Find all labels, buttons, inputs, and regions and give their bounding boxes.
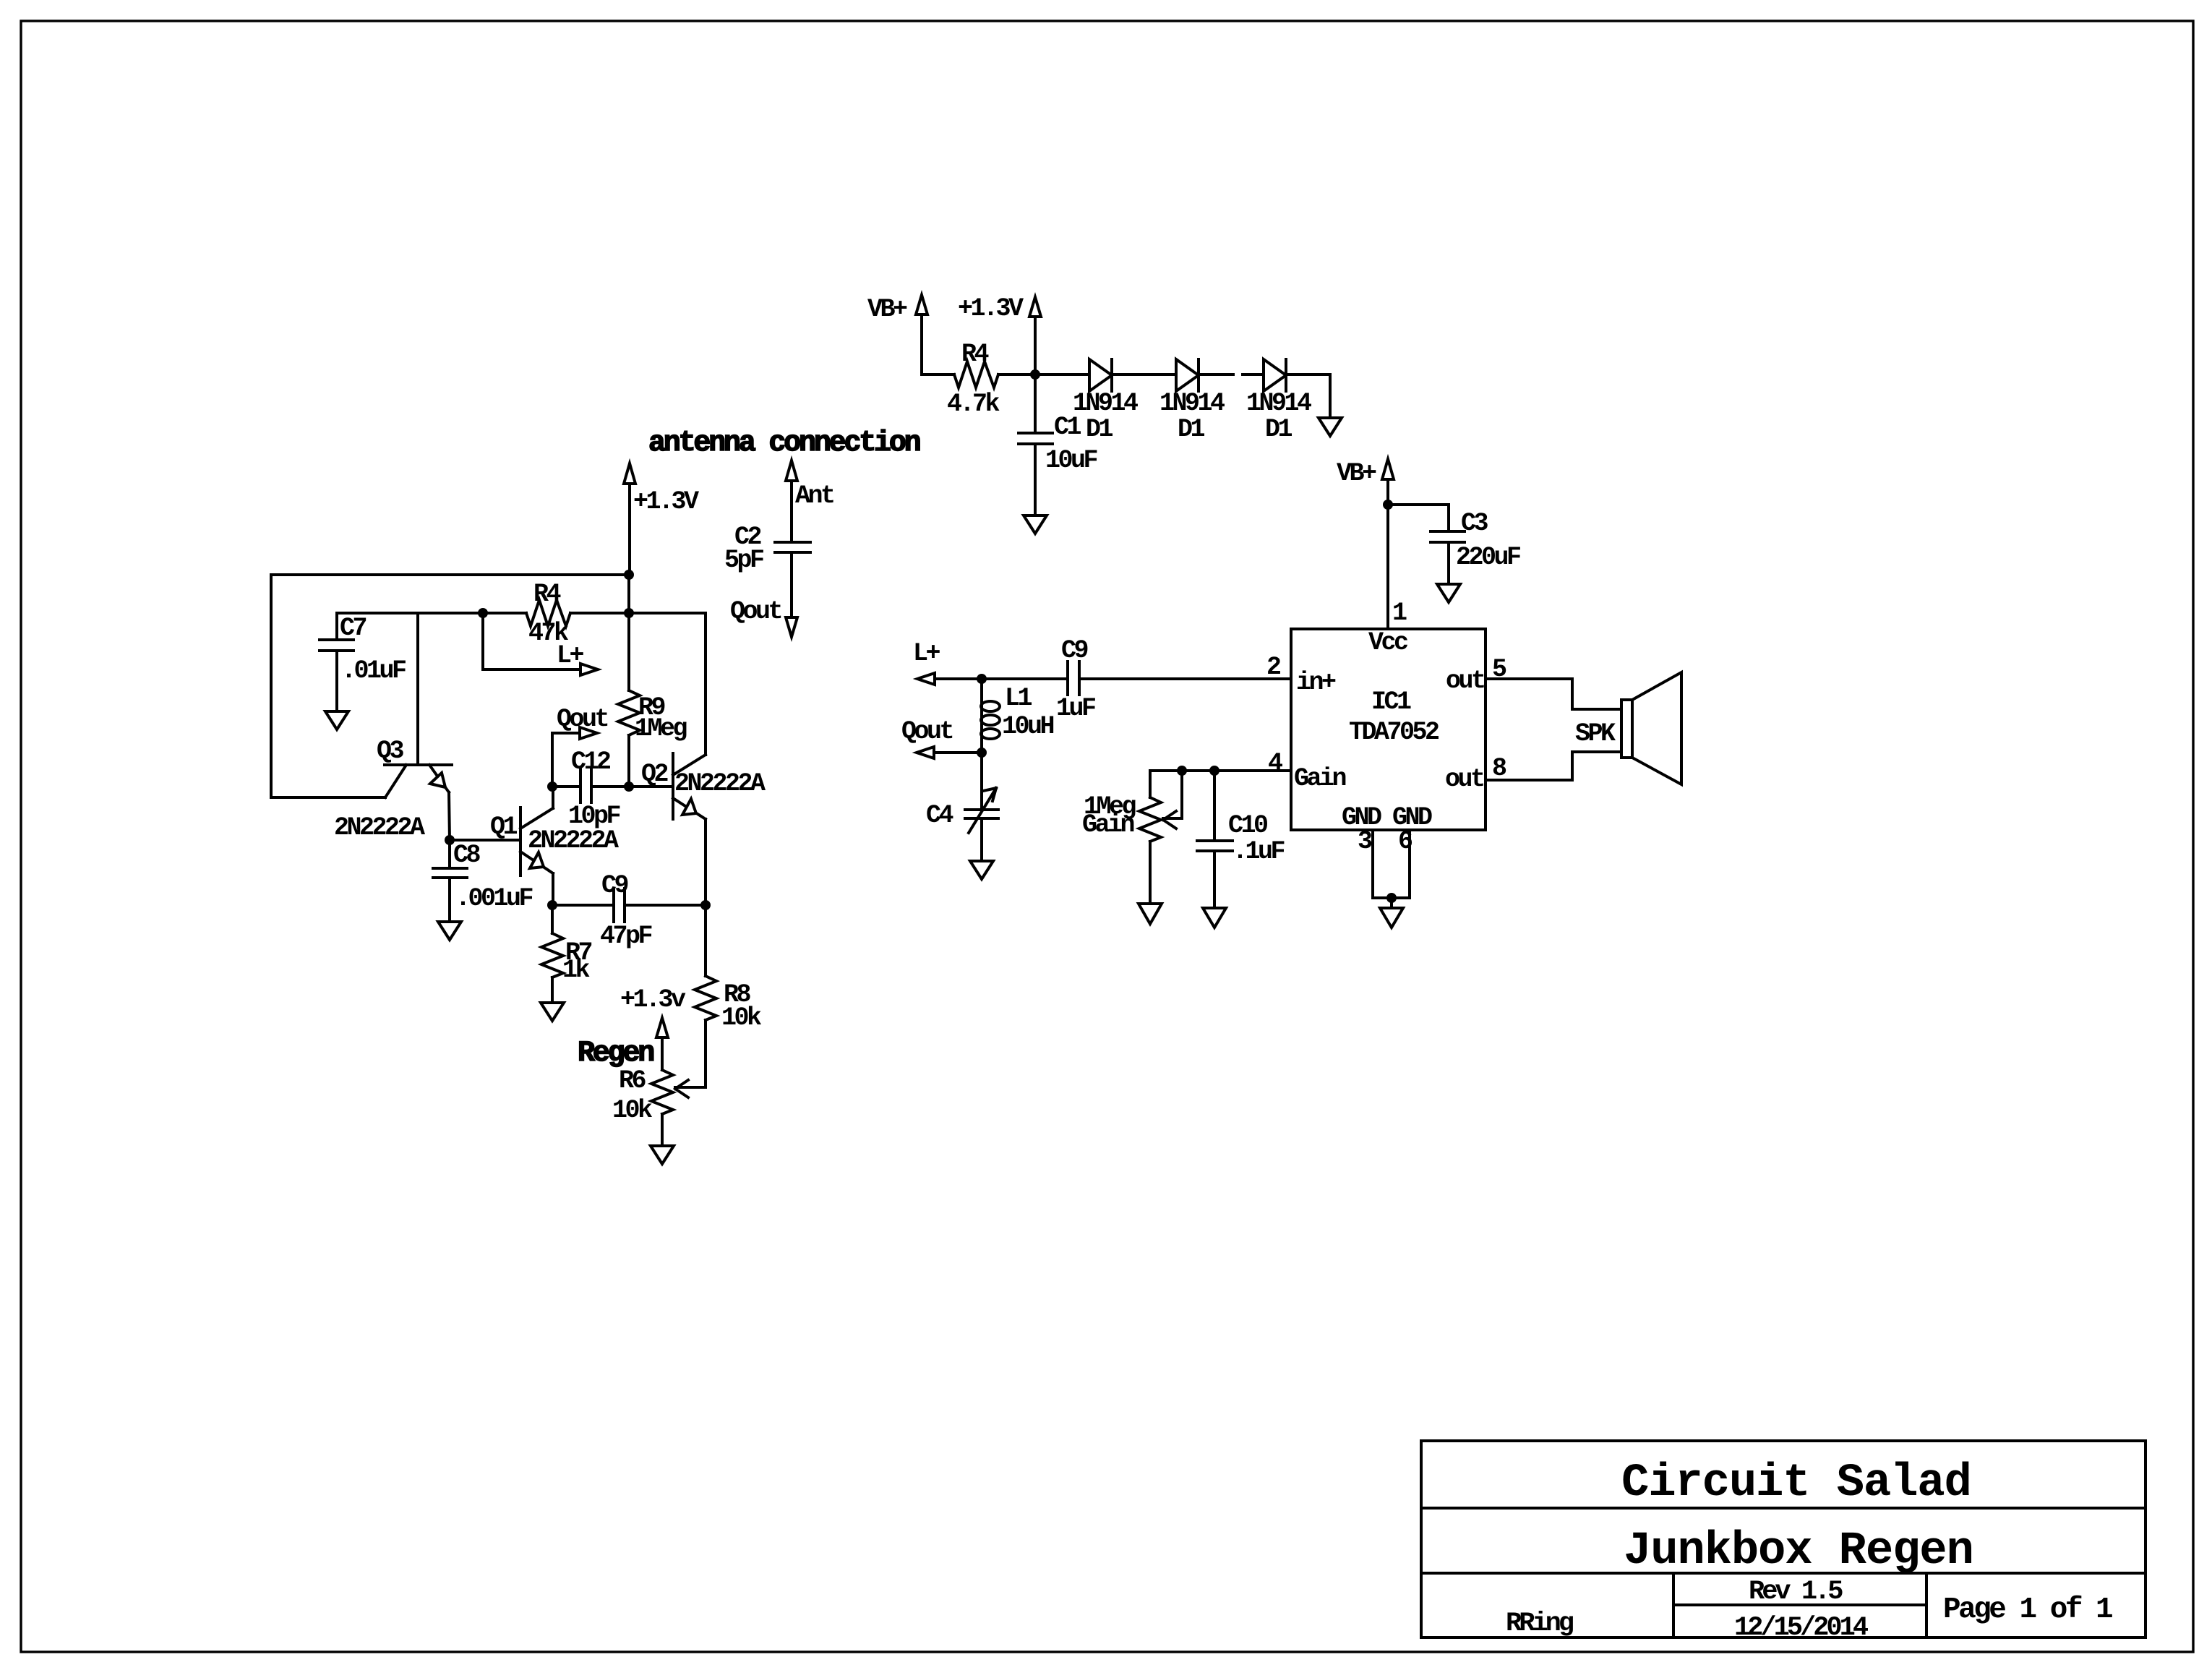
power symbol VB+ (top left of supply section) bbox=[916, 295, 927, 374]
svg-text:D1: D1 bbox=[1178, 415, 1205, 444]
svg-text:3: 3 bbox=[1358, 827, 1372, 856]
svg-text:GND GND: GND GND bbox=[1342, 803, 1432, 832]
svg-text:.1uF: .1uF bbox=[1233, 837, 1285, 866]
junction at C12 right / R9 / Q2 base bbox=[624, 782, 634, 792]
svg-text:out: out bbox=[1446, 667, 1484, 695]
wire node to diode D1a bbox=[1035, 373, 1089, 376]
capacitor C10 .1uF bbox=[1197, 771, 1233, 908]
capacitor C8 .001uF bbox=[433, 840, 467, 922]
title block row divider 2 bbox=[1421, 1572, 2145, 1575]
capacitor C3 220uF bbox=[1388, 505, 1465, 584]
power symbol VB+ (amplifier) bbox=[1382, 459, 1394, 505]
wire D1a to D1b bbox=[1112, 373, 1176, 376]
junction at L1 top bbox=[977, 674, 987, 684]
wire D1c to ground bbox=[1286, 374, 1330, 418]
svg-text:TDA7052: TDA7052 bbox=[1349, 718, 1439, 747]
junction at pot wiper / pin4 wire bbox=[1177, 766, 1187, 776]
svg-text:R6: R6 bbox=[619, 1066, 646, 1095]
svg-text:C9: C9 bbox=[1061, 636, 1088, 665]
transistor Q2 2N2222A bbox=[673, 753, 706, 905]
capacitor C1 10uF bbox=[1019, 374, 1053, 515]
svg-text:47pF: 47pF bbox=[600, 922, 652, 951]
node arrow Qout (amp side) bbox=[917, 747, 982, 758]
inductor L1 10uH bbox=[981, 679, 1000, 753]
wire node to R4 47k bbox=[483, 612, 526, 615]
junction at +1.3V feed bbox=[624, 570, 634, 580]
power-style arrow Ant (antenna input) bbox=[786, 461, 797, 542]
capacitor C2 5pF bbox=[775, 542, 810, 617]
capacitor C7 .01uF bbox=[320, 613, 353, 711]
resistor R4 47k (feedback) bbox=[526, 600, 570, 626]
resistor R4 4.7k (supply dropper) bbox=[954, 361, 998, 387]
svg-text:D1: D1 bbox=[1265, 415, 1293, 444]
node stub Qout (oscillator output) bbox=[552, 733, 579, 787]
svg-text:.001uF: .001uF bbox=[455, 884, 533, 913]
resistor R9 1Meg bbox=[618, 613, 640, 787]
svg-text:L1: L1 bbox=[1005, 684, 1032, 713]
svg-text:Vcc: Vcc bbox=[1368, 628, 1407, 657]
svg-text:Qout: Qout bbox=[730, 597, 781, 626]
title block column divider left bbox=[1672, 1573, 1675, 1637]
ground below C3 bbox=[1437, 584, 1460, 602]
ground at diode chain end bbox=[1319, 418, 1342, 436]
ground below C7 bbox=[325, 711, 348, 729]
svg-text:VB+: VB+ bbox=[1337, 459, 1376, 488]
svg-text:2N2222A: 2N2222A bbox=[674, 769, 766, 798]
wire pin 5 to speaker bbox=[1486, 679, 1621, 709]
transistor Q3 2N2222A bbox=[385, 613, 452, 840]
wire C7 to R4(47k) node bbox=[337, 612, 483, 615]
resistor R8 10k bbox=[695, 905, 716, 1087]
pin 1 wire Vcc bbox=[1386, 505, 1389, 629]
svg-text:Gain: Gain bbox=[1294, 764, 1346, 793]
svg-text:1N914: 1N914 bbox=[1159, 389, 1225, 418]
svg-text:Junkbox Regen: Junkbox Regen bbox=[1624, 1525, 1973, 1577]
junction at L1 bottom / C4 bbox=[977, 748, 987, 758]
junction at R4/R9 node bbox=[624, 608, 634, 618]
svg-text:C10: C10 bbox=[1228, 811, 1267, 840]
ground below pins 3/6 bbox=[1380, 908, 1403, 928]
svg-text:1N914: 1N914 bbox=[1073, 389, 1138, 418]
svg-text:Rev 1.5: Rev 1.5 bbox=[1749, 1577, 1843, 1607]
svg-text:1Meg: 1Meg bbox=[635, 714, 687, 743]
svg-text:12/15/2014: 12/15/2014 bbox=[1734, 1613, 1869, 1643]
svg-text:C3: C3 bbox=[1461, 509, 1488, 538]
svg-text:Q1: Q1 bbox=[490, 813, 518, 842]
svg-text:10k: 10k bbox=[612, 1096, 653, 1125]
title block outer box bbox=[1421, 1441, 2145, 1637]
wire C12 node to Q2 base bbox=[629, 785, 673, 788]
node stub L+ (left circuit) bbox=[483, 613, 579, 669]
svg-text:SPK: SPK bbox=[1575, 719, 1616, 748]
wire node to Q2 collector corner bbox=[629, 613, 706, 755]
svg-text:Gain: Gain bbox=[1082, 810, 1134, 839]
node arrow L+ (left circuit) bbox=[580, 664, 598, 675]
svg-text:Circuit Salad: Circuit Salad bbox=[1621, 1457, 1971, 1510]
node arrow Qout (oscillator) bbox=[580, 727, 597, 739]
node arrow L+ (amp input) bbox=[917, 673, 982, 685]
pins 3 and 6 ground wires bbox=[1373, 830, 1410, 908]
diode D1 (first 1N914) bbox=[1089, 359, 1112, 391]
wire L1 node to C9 bbox=[982, 677, 1068, 680]
pin 4 wire Gain bbox=[1150, 769, 1291, 772]
svg-text:Page 1 of 1: Page 1 of 1 bbox=[1943, 1593, 2112, 1627]
capacitor C9 47pF bbox=[552, 888, 706, 922]
ground below C8 bbox=[438, 922, 461, 940]
svg-text:C9: C9 bbox=[601, 871, 628, 900]
svg-text:Qout: Qout bbox=[901, 717, 953, 746]
ground below gain pot bbox=[1139, 904, 1162, 924]
variable capacitor C4 bbox=[965, 753, 998, 861]
junction at VB+/C3 bbox=[1383, 500, 1393, 510]
ground below C10 bbox=[1203, 908, 1226, 928]
svg-text:L+: L+ bbox=[913, 639, 940, 668]
svg-text:C4: C4 bbox=[926, 801, 953, 830]
svg-text:antenna connection: antenna connection bbox=[648, 427, 920, 460]
svg-text:C12: C12 bbox=[571, 748, 610, 776]
op-amp IC1 TDA7052 body bbox=[1291, 629, 1486, 830]
svg-text:+1.3V: +1.3V bbox=[958, 294, 1024, 323]
svg-text:+1.3v: +1.3v bbox=[620, 985, 686, 1014]
svg-text:R4: R4 bbox=[533, 580, 561, 609]
resistor R7 1k bbox=[541, 905, 563, 1003]
svg-text:1: 1 bbox=[1392, 599, 1407, 628]
svg-text:1N914: 1N914 bbox=[1246, 389, 1311, 418]
diode D1 (third 1N914) bbox=[1264, 359, 1286, 391]
svg-text:+1.3V: +1.3V bbox=[633, 487, 699, 516]
svg-text:Qout: Qout bbox=[557, 705, 608, 734]
ground below R6 bbox=[651, 1146, 674, 1164]
wire pin 8 to speaker bbox=[1486, 752, 1621, 780]
wire R4 to center node bbox=[570, 612, 629, 615]
wire feedback loop left side bbox=[271, 575, 385, 797]
svg-text:10uF: 10uF bbox=[1045, 446, 1097, 475]
wire R4 to node bbox=[998, 373, 1035, 376]
junction at Q1 collector / C12 left bbox=[547, 782, 557, 792]
power symbol +1.3v (regen pot) bbox=[656, 1018, 668, 1070]
junction at Q2 emitter / R8 bbox=[700, 900, 711, 910]
wire +1.3V node down to R4 node bbox=[627, 575, 630, 613]
svg-text:L+: L+ bbox=[557, 641, 584, 670]
svg-text:1uF: 1uF bbox=[1056, 694, 1095, 723]
junction at Q1 emitter / R7 / C9 bbox=[547, 900, 557, 910]
wire D1b to D1c (with draw break) bbox=[1199, 373, 1233, 376]
junction at C10 / pin4 wire bbox=[1209, 766, 1219, 776]
ground below R7 bbox=[541, 1003, 564, 1021]
svg-text:220uF: 220uF bbox=[1456, 543, 1520, 572]
svg-text:1k: 1k bbox=[562, 956, 591, 985]
junction at C7/R4/L+ node bbox=[478, 608, 488, 618]
wire VB+ to R4 bbox=[922, 373, 954, 376]
svg-text:4: 4 bbox=[1268, 749, 1282, 778]
svg-text:C7: C7 bbox=[340, 614, 366, 643]
svg-text:Ant: Ant bbox=[795, 481, 833, 510]
title block rev/date divider bbox=[1673, 1603, 1926, 1606]
svg-text:4.7k: 4.7k bbox=[947, 390, 1000, 419]
capacitor C12 10pF bbox=[552, 769, 629, 802]
svg-text:RRing: RRing bbox=[1506, 1609, 1574, 1639]
svg-text:Q3: Q3 bbox=[377, 737, 404, 766]
svg-text:5pF: 5pF bbox=[724, 546, 763, 575]
svg-text:C8: C8 bbox=[453, 841, 481, 870]
svg-text:D1: D1 bbox=[1086, 415, 1113, 444]
junction node at R4/C1/+1.3V bbox=[1030, 369, 1040, 380]
svg-text:2N2222A: 2N2222A bbox=[528, 826, 619, 855]
ground below C4 bbox=[970, 861, 993, 879]
ground below C1 bbox=[1024, 515, 1047, 534]
svg-text:Regen: Regen bbox=[578, 1037, 653, 1070]
title block row divider 1 bbox=[1421, 1507, 2145, 1510]
svg-text:in+: in+ bbox=[1296, 668, 1336, 697]
junction at Q1 base / C8 bbox=[445, 835, 455, 845]
node arrow Qout (antenna side, down) bbox=[786, 617, 797, 637]
title block column divider right bbox=[1925, 1573, 1928, 1637]
power symbol +1.3V (left circuit) bbox=[624, 463, 635, 575]
wire top rail to feedback loop bbox=[271, 573, 629, 576]
capacitor C9 1uF bbox=[1068, 661, 1291, 695]
svg-text:out: out bbox=[1445, 765, 1483, 794]
svg-text:2N2222A: 2N2222A bbox=[334, 813, 425, 842]
svg-text:IC1: IC1 bbox=[1371, 688, 1411, 716]
speaker SPK bbox=[1621, 672, 1681, 784]
diode D1 (second 1N914) bbox=[1176, 359, 1199, 391]
svg-text:.01uF: .01uF bbox=[341, 656, 406, 685]
power symbol +1.3V (top) bbox=[1029, 297, 1041, 374]
svg-text:10k: 10k bbox=[721, 1003, 762, 1032]
transistor Q1 2N2222A bbox=[450, 787, 553, 905]
svg-text:Q2: Q2 bbox=[641, 760, 668, 789]
potentiometer 1Meg Gain bbox=[1139, 771, 1182, 904]
svg-text:10uH: 10uH bbox=[1002, 712, 1054, 741]
svg-text:VB+: VB+ bbox=[867, 295, 907, 324]
potentiometer R6 10k bbox=[651, 1070, 706, 1146]
svg-text:R4: R4 bbox=[961, 340, 989, 369]
